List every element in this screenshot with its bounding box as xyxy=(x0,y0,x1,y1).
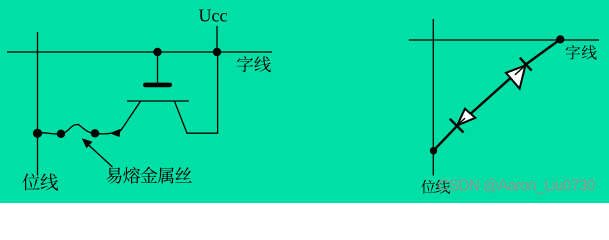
node: dot bit line / diagonal xyxy=(430,147,437,154)
node: junction dot word line / gate lead xyxy=(153,48,161,56)
diode D1 axis streak xyxy=(515,67,524,75)
node: contact dot 1 on bit line xyxy=(33,129,42,138)
label "易熔金属丝" xyxy=(106,167,192,184)
diode D2 (lower) triangle xyxy=(457,109,475,126)
wire: left word line (horizontal) xyxy=(7,51,272,53)
diode D1 cathode bar xyxy=(520,58,532,71)
wire: drain return vertical up to word line xyxy=(217,52,219,133)
annotation arrowhead xyxy=(82,138,93,148)
wire: Ucc lead down to word line xyxy=(216,26,218,52)
label "字线" xyxy=(237,56,271,72)
transistor T1 left (emitter) leg xyxy=(121,101,141,131)
transistor T1 gate bar xyxy=(143,83,172,88)
label "位线" xyxy=(421,180,450,194)
diode D1 (upper) triangle xyxy=(506,65,525,88)
diode D2 axis streak xyxy=(458,118,465,124)
node: contact dot 3 xyxy=(91,129,99,137)
label "字线" xyxy=(566,45,597,59)
node: dot word line / diagonal xyxy=(556,35,564,43)
svg-text:CSDN @Aaron_Liu0730: CSDN @Aaron_Liu0730 xyxy=(438,178,596,195)
wire: gate lead xyxy=(157,52,159,83)
transistor T1 channel line xyxy=(127,100,189,102)
wire: left bit line (vertical) xyxy=(37,32,39,176)
wire: right bit line (vertical) xyxy=(432,19,434,176)
node: junction dot word line / Ucc lead xyxy=(213,48,221,56)
diode D2 cathode bar xyxy=(450,119,464,133)
wire: diagonal cell wire (slightly bent) xyxy=(434,39,561,150)
node: contact dot 2 xyxy=(57,130,65,138)
transistor T1 right (drain) leg xyxy=(175,101,219,133)
wire: right word line (horizontal) xyxy=(409,39,599,41)
transistor T1 emitter arrowhead xyxy=(110,129,121,137)
label "位线" xyxy=(22,173,58,190)
wire: fusible link wavy wire with contact dots xyxy=(38,125,111,134)
svg-text:Ucc: Ucc xyxy=(199,6,228,26)
annotation arrow shaft pointing at fusible wire xyxy=(88,144,113,167)
